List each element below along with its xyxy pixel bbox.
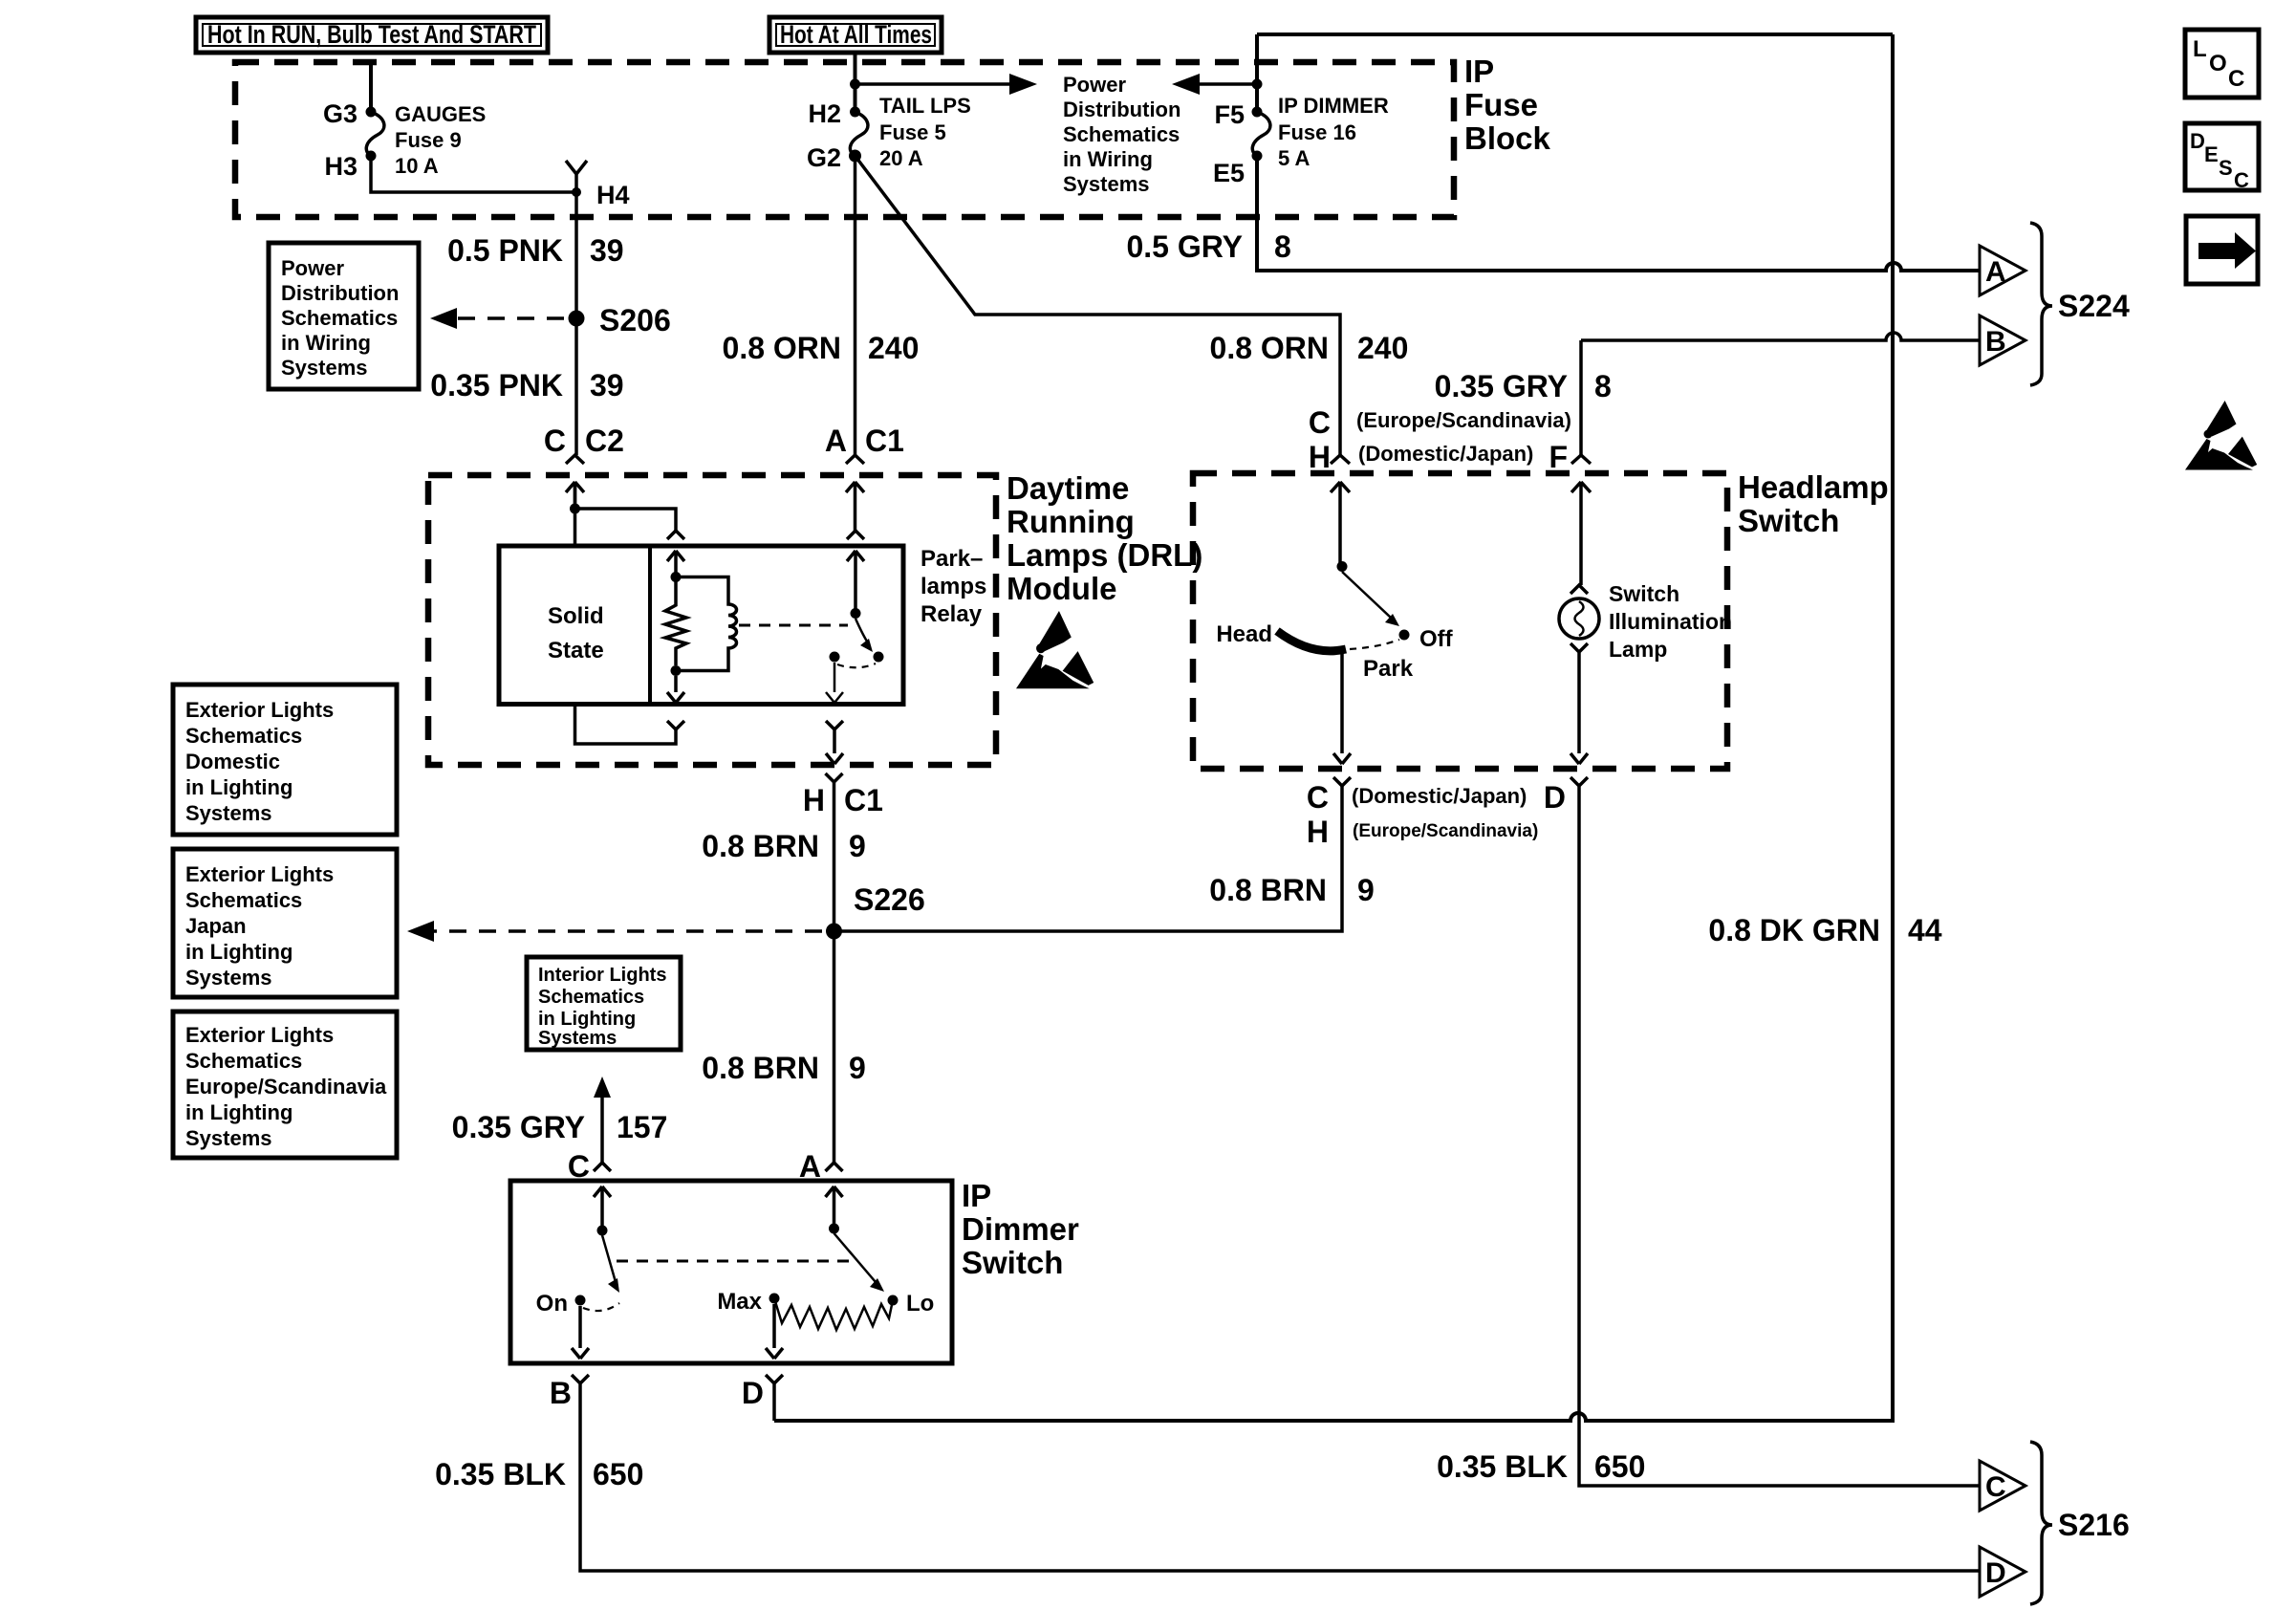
svg-text:Systems: Systems <box>281 356 368 380</box>
svg-text:Domestic: Domestic <box>185 750 280 773</box>
svg-text:IP DIMMER: IP DIMMER <box>1278 94 1389 118</box>
svg-text:20 A: 20 A <box>879 146 923 170</box>
svg-text:Fuse: Fuse <box>1464 87 1538 122</box>
dashed travel arc to Off <box>1350 640 1399 649</box>
svg-text:Power: Power <box>1063 73 1126 97</box>
svg-text:F: F <box>1549 440 1568 474</box>
svg-text:Switch: Switch <box>1609 581 1679 606</box>
svg-text:Off: Off <box>1419 626 1454 652</box>
connector letter D below dimmer, fork <box>742 1375 783 1421</box>
wire 0.8 ORN 240 (G2 straight down to DRL A|C1) <box>854 156 857 455</box>
rheostat resistor zigzag <box>774 1298 893 1330</box>
wire: junction jog to relay coil branch <box>575 509 677 531</box>
svg-text:Systems: Systems <box>185 966 272 990</box>
IP Fuse Block title <box>1464 54 1551 156</box>
S216 brace <box>2030 1442 2052 1604</box>
svg-text:TAIL LPS: TAIL LPS <box>879 94 971 118</box>
svg-text:E: E <box>2204 142 2219 166</box>
IP dimmer switch box <box>510 1181 952 1363</box>
dimmer rheostat arm <box>834 1233 877 1282</box>
svg-text:B: B <box>550 1376 572 1410</box>
splice S226 <box>826 924 842 940</box>
svg-text:Schematics: Schematics <box>281 306 398 330</box>
svg-text:Systems: Systems <box>185 1126 272 1150</box>
svg-text:Block: Block <box>1464 120 1551 156</box>
svg-text:Exterior Lights: Exterior Lights <box>185 698 334 722</box>
svg-text:D: D <box>1985 1557 2006 1589</box>
svg-text:0.8 ORN: 0.8 ORN <box>1210 331 1329 365</box>
relay switch arm <box>856 619 869 644</box>
wire: fuse block top feed to right bus <box>1257 33 1893 36</box>
svg-text:Dimmer: Dimmer <box>962 1211 1079 1247</box>
svg-text:Hot In RUN, Bulb Test And STAR: Hot In RUN, Bulb Test And START <box>207 20 536 49</box>
svg-text:(Domestic/Japan): (Domestic/Japan) <box>1358 442 1533 466</box>
wire: H3 to H4 <box>371 156 576 192</box>
right vertical bus wire 0.8 DK GRN 44 <box>774 34 1893 1421</box>
splice connector S216 triangle D <box>1980 1547 2025 1597</box>
fork below headlamp switch (C|H side) <box>1333 777 1351 786</box>
contact Lo <box>888 1295 899 1306</box>
relay coil branch node (bottom) <box>671 665 682 676</box>
fork into relay box (switch branch) <box>847 531 864 539</box>
svg-text:O: O <box>2209 51 2227 76</box>
wire: GAUGES fuse feed from Hot In RUN <box>369 63 373 112</box>
svg-text:Daytime: Daytime <box>1007 470 1129 506</box>
wire 0.8 BRN 9 from S226 down to IP dimmer A <box>833 931 836 1163</box>
svg-text:Schematics: Schematics <box>185 1049 302 1073</box>
fork below relay box (resistor branch) <box>667 721 684 729</box>
dashed travel arc <box>583 1303 619 1311</box>
svg-text:in Lighting: in Lighting <box>185 775 292 799</box>
svg-text:Fuse 16: Fuse 16 <box>1278 120 1356 144</box>
headlamp switch pivot <box>1337 561 1348 572</box>
reference box: Power Distribution Schematics in Wiring Systems <box>269 243 419 389</box>
svg-text:H: H <box>1309 440 1331 474</box>
node label: Hot At All Times <box>769 17 942 53</box>
svg-text:in Lighting: in Lighting <box>538 1009 636 1030</box>
svg-text:Systems: Systems <box>185 801 272 825</box>
solid state divider <box>648 546 652 705</box>
svg-text:D: D <box>2190 129 2205 153</box>
svg-text:Switch: Switch <box>962 1245 1063 1280</box>
svg-text:39: 39 <box>590 368 624 402</box>
headlamp switch arm <box>1342 572 1391 618</box>
svg-text:in Lighting: in Lighting <box>185 940 292 964</box>
node H4 <box>572 187 581 197</box>
svg-text:Lo: Lo <box>906 1291 934 1316</box>
svg-text:Head: Head <box>1216 621 1272 647</box>
svg-text:Hot At All Times: Hot At All Times <box>780 20 932 49</box>
svg-text:C: C <box>2228 66 2244 92</box>
sidebar forward arrow icon <box>2186 216 2258 284</box>
fuse IP DIMMER Fuse 16 5A <box>1213 34 1389 187</box>
sidebar LOC icon <box>2185 30 2259 98</box>
svg-text:9: 9 <box>1357 873 1375 907</box>
connector C|H at headlamp switch top <box>1309 405 1571 566</box>
svg-text:0.8 DK GRN: 0.8 DK GRN <box>1708 913 1880 947</box>
svg-text:Illumination: Illumination <box>1609 609 1732 634</box>
svg-text:39: 39 <box>590 233 624 268</box>
svg-text:Systems: Systems <box>538 1028 617 1049</box>
connector C1 pin H (below DRL module) <box>803 783 883 817</box>
svg-text:8: 8 <box>1274 229 1291 264</box>
svg-text:Headlamp: Headlamp <box>1738 469 1889 505</box>
fuse GAUGES Fuse 9 10A <box>323 99 486 181</box>
svg-text:Module: Module <box>1007 571 1116 606</box>
svg-text:L: L <box>2193 36 2207 62</box>
connector letters below headlamp switch <box>1307 780 1566 849</box>
svg-text:S224: S224 <box>2058 289 2130 323</box>
reference box: Exterior Lights Schematics Japan <box>173 849 397 997</box>
svg-text:10 A: 10 A <box>395 154 439 178</box>
svg-text:0.35 BLK: 0.35 BLK <box>435 1457 566 1491</box>
svg-text:240: 240 <box>1357 331 1408 365</box>
reference box: Exterior Lights Schematics Domestic <box>173 685 397 835</box>
resistor R (relay coil suppression) <box>665 577 686 666</box>
svg-text:0.8 BRN: 0.8 BRN <box>1209 873 1327 907</box>
svg-text:IP: IP <box>1464 54 1494 89</box>
svg-text:C: C <box>2234 168 2249 192</box>
fuse TAIL LPS Fuse 5 20A <box>807 94 971 172</box>
arrow at DRL module bottom edge <box>826 753 843 764</box>
node label: Hot In RUN, Bulb Test And START <box>196 17 548 53</box>
svg-text:S226: S226 <box>854 882 925 917</box>
svg-text:Lamps (DRL): Lamps (DRL) <box>1007 537 1202 573</box>
switch illumination lamp <box>1559 581 1732 764</box>
svg-text:Distribution: Distribution <box>1063 98 1180 121</box>
IP Dimmer Switch title <box>962 1178 1079 1280</box>
arrow into relay box (coil branch) <box>667 551 684 577</box>
sidebar DESC icon <box>2185 123 2259 192</box>
svg-text:(Europe/Scandinavia): (Europe/Scandinavia) <box>1356 408 1571 432</box>
svg-text:H2: H2 <box>808 99 841 128</box>
svg-text:Solid: Solid <box>548 603 604 629</box>
svg-text:Distribution: Distribution <box>281 281 399 305</box>
svg-text:G3: G3 <box>323 99 357 128</box>
fork below relay box <box>826 721 843 753</box>
connector C2 pin C <box>544 424 624 509</box>
connector letter A above IP dimmer <box>799 1149 843 1184</box>
svg-text:0.8 ORN: 0.8 ORN <box>723 331 841 365</box>
svg-text:Running: Running <box>1007 504 1135 539</box>
sidebar ESD symbol <box>2185 401 2257 470</box>
connector fork at top of C2 wire inside fuse block <box>566 161 587 192</box>
svg-text:Switch: Switch <box>1738 503 1839 538</box>
svg-text:Systems: Systems <box>1063 172 1150 196</box>
svg-text:Japan: Japan <box>185 914 247 938</box>
svg-text:Exterior Lights: Exterior Lights <box>185 862 334 886</box>
svg-text:C: C <box>544 424 566 458</box>
svg-text:D: D <box>1544 780 1566 815</box>
connector letter B below dimmer, fork, wire 0.35 BLK 650 to S216-D <box>435 1375 1980 1571</box>
svg-text:H4: H4 <box>596 181 630 209</box>
fork below headlamp switch (D side) and wire 0.35 BLK 650 to S216-C <box>1570 777 1980 1486</box>
junction on tail fuse feed <box>850 79 860 90</box>
svg-text:650: 650 <box>1594 1449 1645 1484</box>
svg-text:B: B <box>1985 326 2006 358</box>
wire: Max contact down to box edge <box>772 1304 776 1348</box>
connector C1 pin A (into DRL module) <box>825 424 904 531</box>
dimmer rheostat pivot <box>829 1224 839 1234</box>
node: DRL internal feed junction <box>570 504 580 514</box>
svg-text:H3: H3 <box>324 152 357 181</box>
svg-text:D: D <box>742 1376 764 1410</box>
relay coil L <box>676 577 737 671</box>
svg-text:in Wiring: in Wiring <box>1063 147 1153 171</box>
wire: relay common down to box edge <box>834 663 836 692</box>
dashed reference arrow from S226 to Exterior Lights boxes <box>432 929 822 933</box>
dimmer switch arm (left) <box>602 1235 616 1282</box>
svg-text:in Lighting: in Lighting <box>185 1100 292 1124</box>
svg-text:C1: C1 <box>865 424 904 458</box>
svg-text:C: C <box>1985 1471 2006 1503</box>
svg-text:Interior Lights: Interior Lights <box>538 965 666 986</box>
svg-text:0.5 PNK: 0.5 PNK <box>447 233 563 268</box>
fork into relay box (coil branch) <box>667 531 684 539</box>
contact Off <box>1399 630 1410 641</box>
relay contact (closed position) <box>874 652 884 663</box>
wire 0.5 PNK 39 vertical <box>574 192 578 455</box>
IP fuse block dashed outline <box>235 62 1454 217</box>
svg-text:IP: IP <box>962 1178 991 1213</box>
svg-text:0.35 GRY: 0.35 GRY <box>1435 369 1568 403</box>
svg-text:0.8 BRN: 0.8 BRN <box>702 829 819 863</box>
wire 0.5 GRY 8 (E5 to S224-A) with hop over right bus <box>1257 156 1980 271</box>
svg-text:650: 650 <box>593 1457 643 1491</box>
svg-text:C1: C1 <box>844 783 883 817</box>
DRL ESD symbol <box>1016 611 1094 688</box>
Headlamp Switch title <box>1738 469 1889 538</box>
svg-text:G2: G2 <box>807 143 841 172</box>
svg-text:44: 44 <box>1908 913 1942 947</box>
splice connector S224 triangle A <box>1980 246 2025 295</box>
wire 0.8 BRN 9 from S226 to headlamp switch C|H <box>834 786 1343 931</box>
svg-text:0.35 GRY: 0.35 GRY <box>452 1110 585 1144</box>
arrow into dimmer box (A side) <box>826 1186 843 1229</box>
wire: Park output down <box>1340 649 1344 753</box>
contact On <box>575 1295 586 1306</box>
svg-text:Europe/Scandinavia: Europe/Scandinavia <box>185 1075 387 1099</box>
svg-text:240: 240 <box>868 331 919 365</box>
wire: junction into Solid State box <box>574 482 577 546</box>
svg-text:157: 157 <box>617 1110 667 1144</box>
svg-text:0.5 GRY: 0.5 GRY <box>1126 229 1243 264</box>
reference box: Interior Lights Schematics in Lighting Systems <box>527 957 681 1050</box>
wire: resistor branch down through relay box bottom <box>674 676 678 692</box>
svg-text:Schematics: Schematics <box>185 888 302 912</box>
reference box: Exterior Lights Schematics Europe/Scandinavia <box>173 1012 397 1158</box>
Daytime Running Lamps (DRL) Module dashed outline <box>428 475 996 765</box>
svg-text:0.35 PNK: 0.35 PNK <box>430 368 563 402</box>
svg-text:Max: Max <box>717 1289 762 1315</box>
wire 0.35 GRY 8 (headlamp F to S224-B) with hop <box>1581 333 1980 455</box>
contact Max <box>769 1294 780 1304</box>
svg-text:0.8 BRN: 0.8 BRN <box>702 1051 819 1085</box>
annotation: Power Distribution Schematics in Wiring Systems <box>1063 73 1180 196</box>
svg-text:Schematics: Schematics <box>1063 122 1180 146</box>
Park-lamps Relay label <box>921 546 986 627</box>
relay contact (park position) <box>830 652 840 663</box>
svg-text:State: State <box>548 638 604 664</box>
svg-text:0.35 BLK: 0.35 BLK <box>1437 1449 1568 1484</box>
svg-text:Fuse 5: Fuse 5 <box>879 120 946 144</box>
arrow into dimmer box (C side) <box>594 1186 611 1230</box>
svg-text:(Domestic/Japan): (Domestic/Japan) <box>1352 784 1527 808</box>
arrow into relay box (switch branch) <box>847 551 864 613</box>
wire: On contact down to box edge <box>578 1306 582 1348</box>
svg-text:A: A <box>825 424 847 458</box>
svg-text:Relay: Relay <box>921 601 983 627</box>
dimmer On/Off switch pivot <box>597 1226 608 1236</box>
DRL module title <box>1007 470 1202 606</box>
svg-text:5 A: 5 A <box>1278 146 1310 170</box>
park-lamps relay box <box>499 546 903 705</box>
svg-text:Exterior Lights: Exterior Lights <box>185 1023 334 1047</box>
svg-text:Park: Park <box>1363 656 1414 682</box>
wire 0.35 GRY 157 with arrow to Interior Lights box <box>452 1077 668 1184</box>
svg-text:On: On <box>536 1291 568 1316</box>
svg-text:S: S <box>2219 156 2233 180</box>
svg-text:Schematics: Schematics <box>538 987 644 1008</box>
svg-text:H: H <box>803 783 825 817</box>
splice connector S216 triangle C <box>1980 1461 2025 1511</box>
dashed actuation linkage <box>739 624 848 627</box>
fork below DRL module <box>826 773 843 931</box>
svg-text:9: 9 <box>849 829 866 863</box>
svg-text:A: A <box>1985 256 2006 288</box>
splice connector S224 triangle B <box>1980 315 2025 365</box>
headlamp switch dashed outline <box>1193 473 1727 769</box>
svg-text:9: 9 <box>849 1051 866 1085</box>
svg-text:Power: Power <box>281 256 344 280</box>
svg-text:H: H <box>1307 815 1329 849</box>
wire 0.8 ORN 240 (G2 diagonal branch to headlamp switch) <box>856 156 1341 455</box>
svg-text:Park–: Park– <box>921 546 983 572</box>
svg-text:(Europe/Scandinavia): (Europe/Scandinavia) <box>1353 821 1538 841</box>
svg-text:S206: S206 <box>599 303 671 337</box>
svg-text:Schematics: Schematics <box>185 724 302 748</box>
svg-text:S216: S216 <box>2058 1508 2130 1542</box>
svg-text:in Wiring: in Wiring <box>281 331 371 355</box>
svg-text:8: 8 <box>1594 369 1612 403</box>
svg-text:E5: E5 <box>1213 159 1245 187</box>
reference arrow to Power Distribution text (left pointing) <box>1198 82 1257 86</box>
svg-text:F5: F5 <box>1214 100 1245 129</box>
svg-text:Fuse 9: Fuse 9 <box>395 128 462 152</box>
reference arrow to Power Distribution text (right pointing) <box>856 82 1012 86</box>
svg-text:lamps: lamps <box>921 574 986 599</box>
relay coil branch node (top) <box>671 572 682 582</box>
svg-text:Lamp: Lamp <box>1609 637 1667 662</box>
svg-text:C: C <box>1309 405 1331 440</box>
svg-text:C2: C2 <box>585 424 624 458</box>
dashed gang linkage <box>617 1260 851 1263</box>
connector F at headlamp switch top <box>1549 440 1591 585</box>
svg-text:GAUGES: GAUGES <box>395 102 486 126</box>
dashed reference arrow from S206 to Power Distribution box <box>457 316 564 320</box>
svg-text:C: C <box>1307 780 1329 815</box>
relay switch pivot <box>851 608 861 619</box>
S224 brace <box>2030 223 2052 385</box>
dashed travel arc <box>837 664 876 667</box>
splice S206 <box>569 311 585 327</box>
wire: U loop from solid state output to resistor branch <box>575 705 677 745</box>
wire: Hot At All Times feed <box>854 53 857 112</box>
